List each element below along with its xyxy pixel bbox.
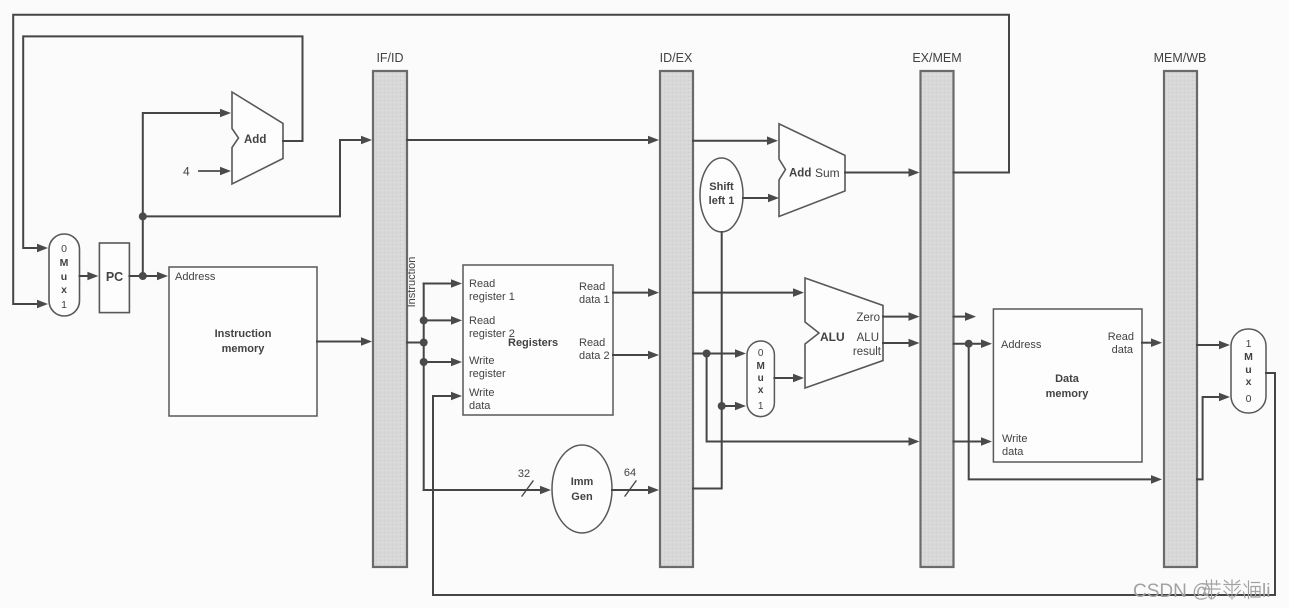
- rotated label Instruction: [406, 257, 418, 308]
- junction read data 2: [703, 350, 711, 358]
- pipeline register EX/MEM: [912, 51, 961, 567]
- svg-text:CSDN @: CSDN @: [1133, 581, 1211, 602]
- arrowhead into data memory Write data: [981, 437, 992, 446]
- svg-text:Write: Write: [469, 355, 494, 367]
- svg-text:Sum: Sum: [815, 166, 840, 180]
- svg-text:u: u: [1245, 364, 1251, 376]
- arrowhead into mux M1 input 1: [37, 300, 48, 309]
- svg-text:Data: Data: [1055, 373, 1080, 385]
- arrowhead into mux M3 input 0: [1219, 393, 1230, 402]
- svg-text:ALU: ALU: [857, 332, 879, 344]
- arrowhead into ID/EX (immediate): [648, 486, 659, 495]
- wire instruction fan-out from IF/ID: [407, 342, 424, 344]
- svg-text:memory: memory: [1046, 388, 1090, 400]
- arrowhead into Add Sum lower input: [768, 194, 779, 203]
- svg-text:PC: PC: [106, 270, 123, 284]
- mux M2 (ALU source mux): [747, 341, 774, 417]
- wire mux M1 to PC: [80, 275, 90, 277]
- svg-text:4: 4: [183, 165, 190, 179]
- adder Add (PC+4): [232, 92, 283, 184]
- svg-text:Zero: Zero: [856, 312, 880, 324]
- arrowhead into mux M3 input 1: [1219, 341, 1230, 350]
- svg-text:ALU: ALU: [820, 330, 845, 344]
- svg-text:EX/MEM: EX/MEM: [912, 51, 961, 65]
- wire to Read register 1: [424, 283, 453, 285]
- adder Add Sum (branch target): [779, 124, 845, 217]
- svg-text:0: 0: [61, 243, 67, 255]
- svg-text:Gen: Gen: [571, 491, 593, 503]
- wire shift left 1 to Add Sum lower input: [743, 197, 770, 199]
- svg-text:Read: Read: [469, 315, 495, 327]
- pipeline register ID/EX: [660, 51, 693, 567]
- wire ALU Zero to EX/MEM: [883, 316, 911, 318]
- svg-text:u: u: [61, 271, 67, 283]
- arrowhead into EX/MEM (store data): [909, 437, 920, 446]
- wire Read data 1 after ID/EX to ALU input: [693, 292, 795, 294]
- wire Read data 2 after ID/EX to mux M2 input 0: [693, 353, 737, 355]
- junction PC riser: [139, 212, 147, 220]
- registers file: [463, 265, 613, 415]
- svg-text:Address: Address: [1001, 339, 1042, 351]
- svg-text:MEM/WB: MEM/WB: [1154, 51, 1207, 65]
- ALU: [805, 278, 883, 388]
- pipeline register IF/ID: [373, 51, 407, 567]
- svg-text:Instruction: Instruction: [215, 328, 272, 340]
- wire mux M2 output to ALU lower input: [774, 377, 795, 379]
- svg-text:data: data: [469, 400, 491, 412]
- arrowhead into EX/MEM (Add Sum): [909, 168, 920, 177]
- wire Read data 2 to ID/EX: [613, 354, 650, 356]
- svg-text:x: x: [758, 385, 764, 396]
- svg-text:Add: Add: [244, 134, 266, 146]
- arrowhead into Add top input: [220, 109, 231, 118]
- svg-text:Registers: Registers: [508, 337, 558, 349]
- svg-text:64: 64: [624, 467, 636, 479]
- wire Add Sum output to EX/MEM: [845, 172, 911, 174]
- arrowhead into MEM/WB (read data): [1151, 338, 1162, 347]
- svg-text:0: 0: [1246, 393, 1252, 405]
- svg-text:0: 0: [758, 348, 764, 359]
- arrowhead into EX/MEM (Zero): [909, 312, 920, 321]
- svg-text:Write: Write: [469, 387, 494, 399]
- junction instruction bus (main): [420, 339, 428, 347]
- arrowhead into ID/EX (PC): [648, 136, 659, 145]
- ARROWHEADS: [37, 109, 1230, 495]
- svg-text:Read: Read: [469, 278, 495, 290]
- wire ALU result after EX/MEM to data memory Address: [954, 343, 984, 345]
- svg-text:x: x: [1246, 376, 1252, 388]
- svg-text:Write: Write: [1002, 433, 1027, 445]
- svg-text:Imm: Imm: [571, 476, 594, 488]
- svg-text:data: data: [1112, 344, 1134, 356]
- arrowhead into registers Write data: [451, 392, 462, 401]
- svg-text:1: 1: [1246, 338, 1252, 350]
- wire PC riser up to Add top input: [143, 113, 221, 276]
- arrowhead into EX/MEM (ALU result): [909, 339, 920, 348]
- wire to Imm Gen: [424, 489, 542, 491]
- svg-text:Add: Add: [789, 168, 811, 180]
- wire store data after EX/MEM to data memory Write data: [954, 441, 984, 443]
- svg-text:M: M: [1244, 351, 1253, 363]
- wire PC between IF/ID and ID/EX: [407, 139, 650, 141]
- svg-text:data 1: data 1: [579, 294, 610, 306]
- arrowhead into data memory Address: [981, 339, 992, 348]
- wire to Read register 2: [424, 319, 453, 321]
- svg-text:Read: Read: [579, 281, 605, 293]
- svg-text:Address: Address: [175, 271, 216, 283]
- wire write-back from mux M3 to registers Write data: [433, 373, 1275, 595]
- arrowhead Zero after EX/MEM: [965, 312, 976, 321]
- wire Read data after MEM/WB to mux M3 input 1: [1197, 344, 1221, 346]
- arrowhead into Imm Gen: [540, 486, 551, 495]
- svg-text:result: result: [853, 346, 882, 358]
- wire immediate branch to mux M2 input 1: [722, 405, 737, 407]
- svg-text:data 2: data 2: [579, 350, 610, 362]
- arrowhead into Read register 2: [451, 316, 462, 325]
- svg-text:32: 32: [518, 468, 530, 480]
- junction instruction bus (write register): [420, 358, 428, 366]
- svg-text:data: data: [1002, 446, 1024, 458]
- junction immediate: [718, 402, 726, 410]
- arrowhead into mux M2 input 0: [735, 349, 746, 358]
- svg-text:1: 1: [61, 299, 67, 311]
- wire Imm Gen to ID/EX: [612, 489, 650, 491]
- instruction memory: [169, 267, 317, 416]
- svg-text:li: li: [1262, 581, 1270, 602]
- svg-text:memory: memory: [222, 343, 266, 355]
- arrowhead into Add Sum top input: [767, 136, 778, 145]
- svg-text:register 1: register 1: [469, 291, 515, 303]
- svg-text:register: register: [469, 368, 506, 380]
- wire instruction memory to IF/ID: [317, 341, 363, 343]
- data memory: [993, 309, 1142, 462]
- arrowhead into ALU lower input: [793, 374, 804, 383]
- svg-text:x: x: [61, 284, 67, 296]
- junction PC output: [139, 272, 147, 280]
- arrowhead into IF/ID (instruction): [361, 337, 372, 346]
- wire PC value to IF/ID: [143, 140, 363, 216]
- arrowhead into ID/EX (read data 2): [648, 351, 659, 360]
- wire branch target after EX/MEM feedback to mux M1 input 1: [13, 15, 1009, 304]
- wire ALU result to EX/MEM: [883, 342, 911, 344]
- constant 4 with wire into Add: [183, 165, 231, 179]
- svg-text:M: M: [757, 361, 765, 372]
- mux M1 (PC source mux): [49, 234, 80, 316]
- arrowhead into Read register 1: [451, 279, 462, 288]
- svg-text:u: u: [758, 373, 764, 384]
- shift left 1 unit: [700, 158, 743, 232]
- svg-text:Shift: Shift: [709, 181, 734, 193]
- wire PC after ID/EX to Add Sum top input: [693, 140, 769, 142]
- imm gen unit: [552, 445, 612, 533]
- wire ALU result down to MEM/WB: [969, 344, 1153, 480]
- svg-text:Read: Read: [1108, 331, 1134, 343]
- JUNCTION DOTS: [139, 212, 973, 410]
- PC register: [99, 243, 129, 313]
- arrowhead into mux M1 input 0: [37, 244, 48, 253]
- junction instruction bus (read register 2): [420, 316, 428, 324]
- svg-text:1: 1: [758, 401, 764, 412]
- bus width label 32 with slash: [518, 468, 533, 496]
- arrowhead into ALU top input: [793, 288, 804, 297]
- wire immediate after ID/EX up to shift left 1: [693, 232, 722, 489]
- svg-text:Read: Read: [579, 337, 605, 349]
- wire Read data 2 down to EX/MEM (store data): [707, 354, 911, 442]
- arrowhead into ID/EX (read data 1): [648, 288, 659, 297]
- svg-text:left 1: left 1: [709, 195, 735, 207]
- mux M3 (write-back mux): [1231, 329, 1266, 413]
- svg-text:ID/EX: ID/EX: [660, 51, 693, 65]
- bus width label 64 with slash: [624, 467, 636, 496]
- pipeline register MEM/WB: [1154, 51, 1207, 567]
- arrowhead into Write register: [451, 358, 462, 367]
- arrowhead into MEM/WB (ALU result): [1151, 475, 1162, 484]
- junction ALU result after EX/MEM: [965, 340, 973, 348]
- watermark CSDN: [1133, 580, 1270, 602]
- wire Zero after EX/MEM: [954, 316, 967, 318]
- svg-text:Instruction: Instruction: [406, 257, 418, 308]
- arrowhead into mux M2 input 1: [735, 402, 746, 411]
- wire instruction vertical bus: [423, 284, 425, 491]
- wire to Write register: [424, 361, 453, 363]
- svg-text:M: M: [60, 257, 69, 269]
- arrowhead into PC: [87, 272, 98, 281]
- wire ALU result after MEM/WB to mux M3 input 0: [1197, 397, 1221, 479]
- arrowhead into IF/ID (PC): [361, 136, 372, 145]
- wire data memory Read data to MEM/WB: [1142, 342, 1153, 344]
- wire Read data 1 to ID/EX: [613, 292, 650, 294]
- arrowhead into instruction memory Address: [157, 272, 168, 281]
- wire PC to instruction memory Address: [129, 275, 159, 277]
- wire Add output feedback to mux M1 input 0: [23, 36, 302, 248]
- svg-text:IF/ID: IF/ID: [376, 51, 403, 65]
